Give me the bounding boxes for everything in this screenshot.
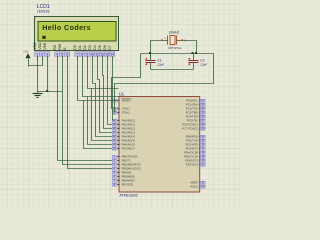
junction dots on rail	[149, 52, 151, 54]
svg-text:D6: D6	[103, 45, 107, 50]
wire cap bottoms rail	[151, 69, 194, 71]
wire VSS pin1 down	[37, 59, 39, 94]
svg-text:9: 9	[86, 52, 88, 56]
node rail y53	[141, 53, 214, 55]
svg-text:6: 6	[66, 52, 68, 56]
svg-text:3: 3	[46, 52, 48, 56]
svg-text:10: 10	[90, 52, 94, 56]
svg-text:VEE: VEE	[43, 42, 47, 50]
svg-text:VDD: VDD	[38, 42, 42, 50]
svg-text:16MHZ: 16MHZ	[168, 31, 179, 35]
wire XTAL1 net	[112, 54, 141, 109]
wire jog extension	[84, 100, 119, 102]
svg-text:11: 11	[95, 52, 99, 56]
wire D1 to PA6	[83, 60, 113, 145]
microcontroller U1 ATMEGA32 body	[119, 97, 200, 193]
wire D3 to PA4	[93, 60, 113, 137]
wire VEE pin3 down	[47, 59, 49, 92]
wire D4 to PA3	[98, 60, 113, 133]
LCD cursor	[42, 36, 45, 39]
svg-text:Hello Coders: Hello Coders	[42, 24, 91, 32]
capacitor C2	[189, 61, 199, 63]
svg-text:D1: D1	[78, 45, 82, 50]
crystal pin leads	[163, 40, 168, 42]
wire D5 to PA2	[103, 60, 113, 129]
svg-text:RESET: RESET	[122, 99, 132, 103]
svg-text:PA7/ADC7: PA7/ADC7	[122, 147, 136, 151]
wire D7 to PA0	[112, 60, 114, 121]
wire jog extension	[88, 96, 119, 98]
LCD pin number boxes	[35, 52, 115, 56]
svg-text:PB7/SCK: PB7/SCK	[122, 183, 134, 187]
svg-text:5: 5	[61, 52, 63, 56]
wire E to PB3	[68, 60, 113, 169]
wire D0 to PA7	[78, 60, 113, 149]
svg-text:PD7/OC2: PD7/OC2	[186, 163, 198, 167]
svg-text:LM016L: LM016L	[37, 10, 50, 14]
svg-text:XTAL2: XTAL2	[122, 111, 131, 115]
wire +5V to VDD pin2	[29, 59, 43, 66]
LCD pin stubs	[38, 57, 113, 60]
crystal 16MHZ	[168, 36, 177, 45]
wire D6 to PA1	[108, 60, 113, 125]
LCD LCD1 module body	[35, 17, 119, 51]
svg-text:RS: RS	[53, 44, 57, 50]
ground rail	[38, 91, 63, 93]
wire crystal pin2 right, down to rail	[184, 41, 197, 54]
wire jog extension	[92, 88, 119, 90]
svg-text:D0: D0	[73, 45, 77, 50]
right pin stubs/boxes/numbers/names	[200, 99, 206, 188]
LCD pin names	[33, 42, 112, 50]
svg-text:RW: RW	[58, 43, 62, 50]
svg-text:D5: D5	[98, 45, 102, 50]
svg-text:D7: D7	[108, 45, 112, 50]
ground symbol	[33, 94, 43, 98]
svg-text:U1: U1	[119, 91, 125, 96]
left pin stubs/boxes/numbers/names	[112, 99, 120, 186]
svg-text:D4: D4	[93, 45, 97, 50]
junction VEE/rail	[46, 90, 48, 92]
wire XTAL2 net	[115, 54, 214, 113]
svg-text:4: 4	[56, 52, 58, 56]
svg-text:VSS: VSS	[33, 42, 37, 50]
wire RS to PB1	[58, 60, 113, 161]
background grid	[0, 0, 241, 209]
wire crystal pin1 to C1 top	[151, 41, 163, 60]
svg-text:22pF: 22pF	[156, 62, 164, 66]
svg-text:22pF: 22pF	[199, 62, 207, 66]
red pin-end dots + pin numbers	[161, 39, 162, 40]
svg-text:8: 8	[81, 52, 83, 56]
svg-text:D2: D2	[83, 45, 87, 50]
wire D2 to PA5	[88, 60, 113, 141]
wire RW to PB2	[63, 60, 113, 165]
capacitor C1	[146, 61, 156, 63]
svg-text:13: 13	[105, 52, 109, 56]
svg-text:+5V: +5V	[23, 49, 28, 53]
svg-text:2: 2	[41, 52, 43, 56]
svg-text:14: 14	[110, 52, 114, 56]
svg-text:12: 12	[100, 52, 104, 56]
svg-text:PC7/TOSC2: PC7/TOSC2	[182, 127, 198, 131]
svg-text:ATMEGA32: ATMEGA32	[119, 194, 137, 198]
svg-text:7: 7	[76, 52, 78, 56]
svg-text:AVCC: AVCC	[190, 185, 198, 189]
svg-text:1: 1	[36, 52, 38, 56]
svg-text:D3: D3	[88, 45, 92, 50]
svg-text:CRYSTAL: CRYSTAL	[168, 46, 182, 50]
